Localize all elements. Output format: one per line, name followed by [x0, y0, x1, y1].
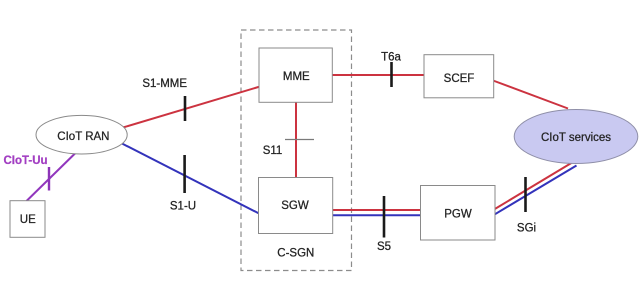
tick S1-MME: [184, 96, 187, 121]
tick SGi: [524, 177, 527, 212]
svg-text:CIoT RAN: CIoT RAN: [57, 131, 109, 143]
svg-text:S1-U: S1-U: [170, 201, 196, 213]
MME box: [259, 48, 332, 102]
tick S11 (horizontal, gray): [285, 139, 314, 141]
svg-text:S1-MME: S1-MME: [142, 78, 187, 90]
svg-text:SCEF: SCEF: [444, 73, 475, 85]
wire SGi red (PGW to CIoT services): [494, 162, 573, 210]
svg-text:SGW: SGW: [281, 200, 309, 212]
tick CIoT-Uu: [48, 167, 50, 191]
wire S5 blue (SGW to PGW): [332, 214, 422, 216]
CIoT services ellipse: [514, 110, 638, 164]
svg-text:UE: UE: [20, 214, 36, 226]
SCEF box: [424, 55, 494, 98]
wire T6a (MME to SCEF, red): [331, 74, 425, 76]
svg-text:C-SGN: C-SGN: [277, 248, 314, 260]
svg-text:S11: S11: [263, 145, 283, 157]
svg-text:PGW: PGW: [444, 209, 472, 221]
wire S1-MME (CIoT RAN to MME, red): [123, 87, 260, 128]
svg-text:T6a: T6a: [381, 52, 401, 64]
wire S11 (MME to SGW, red vertical): [295, 101, 297, 179]
wire S5 red (SGW to PGW): [332, 209, 422, 211]
wire CIoT-Uu (UE to CIoT RAN, purple): [27, 153, 77, 202]
CIoT RAN ellipse: [36, 115, 127, 154]
C-SGN dashed box: [241, 30, 352, 271]
svg-text:CIoT-Uu: CIoT-Uu: [4, 155, 48, 167]
svg-text:CIoT services: CIoT services: [541, 132, 611, 144]
svg-text:MME: MME: [283, 71, 310, 83]
wire SGi blue (PGW to CIoT services): [494, 166, 577, 215]
tick S5: [383, 196, 386, 238]
svg-text:SGi: SGi: [517, 223, 536, 235]
wire S1-U (CIoT RAN to SGW, blue): [122, 144, 260, 215]
tick T6a: [390, 62, 393, 87]
PGW box: [421, 186, 496, 241]
UE box: [10, 201, 45, 238]
wire SCEF to CIoT services (red): [493, 81, 568, 109]
tick S1-U: [183, 155, 186, 193]
svg-text:S5: S5: [377, 241, 391, 253]
SGW box: [259, 178, 333, 234]
